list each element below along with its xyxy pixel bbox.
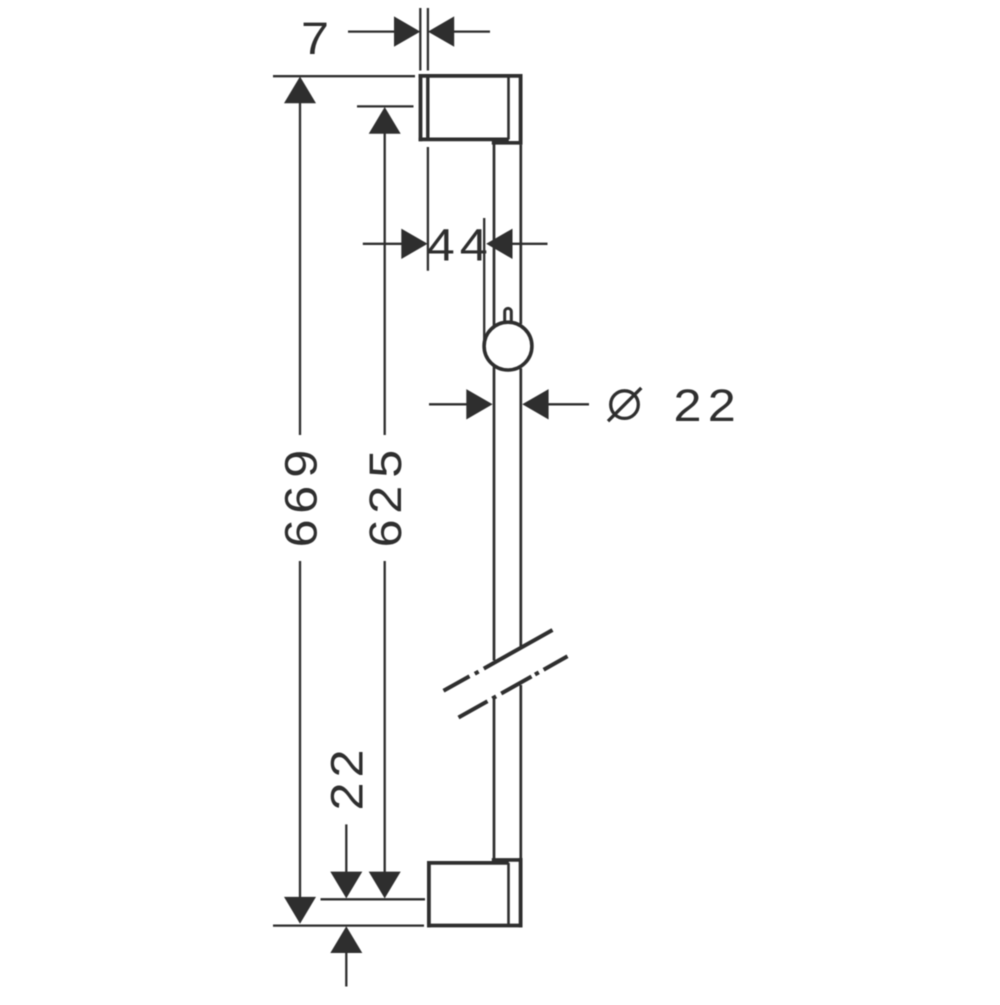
bottom bracket bottom edge bbox=[427, 924, 523, 928]
top bracket collar line bbox=[492, 141, 523, 145]
dim 44 extension line left bbox=[427, 147, 429, 271]
break line upper: dash segments bbox=[444, 630, 553, 691]
rail left edge upper segment bbox=[493, 139, 496, 326]
bottom bracket top edge bbox=[427, 861, 509, 865]
dim 669 line upper part bbox=[299, 101, 301, 435]
svg-text:2: 2 bbox=[673, 381, 701, 431]
label 669 bbox=[277, 450, 327, 548]
svg-text:5: 5 bbox=[362, 450, 412, 478]
dim 22 line above arrow bbox=[345, 824, 347, 873]
svg-text:9: 9 bbox=[277, 450, 327, 478]
extension line bar end bottom bbox=[321, 898, 426, 900]
arrow 7 left (points right) bbox=[394, 16, 420, 46]
svg-text:7: 7 bbox=[301, 14, 329, 64]
arrow 625 bottom (points down) bbox=[369, 872, 401, 899]
dim diameter 22 line left segment bbox=[429, 403, 467, 405]
top bracket left edge bbox=[419, 74, 423, 141]
bottom bracket collar line bbox=[492, 858, 523, 862]
arrow 44 left (points right) bbox=[401, 229, 427, 259]
svg-text:6: 6 bbox=[277, 486, 327, 514]
rail left edge lower segment bbox=[493, 699, 496, 860]
dim 7 line right segment bbox=[454, 30, 491, 32]
svg-text:2: 2 bbox=[708, 381, 736, 431]
arrow 44 right (points left) bbox=[486, 229, 512, 259]
arrow diameter22 right (points left) bbox=[522, 389, 548, 419]
arrow 22 bottom (points up) bbox=[330, 926, 362, 953]
rail right edge lower segment bbox=[519, 685, 522, 858]
label 22 bbox=[323, 749, 373, 810]
top bracket top edge bbox=[419, 74, 523, 78]
bottom bracket left edge bbox=[427, 861, 431, 927]
dim 625 line lower part bbox=[384, 561, 386, 874]
label 625 bbox=[362, 450, 412, 548]
arrow diameter22 left (points right) bbox=[466, 389, 492, 419]
bottom bracket inner right line bbox=[507, 863, 510, 926]
dim 669 extension line top bbox=[273, 75, 415, 77]
dim 22 lower tail line bbox=[345, 952, 347, 987]
svg-text:6: 6 bbox=[277, 519, 327, 547]
arrow 669 bottom (points down) bbox=[284, 897, 316, 924]
slider knob bbox=[505, 308, 512, 323]
arrow 625 top (points up) bbox=[369, 107, 401, 134]
arrow 22 top (points down) bbox=[330, 872, 362, 899]
dim 669 line lower part bbox=[299, 561, 301, 899]
arrow 669 top (points up) bbox=[284, 77, 316, 104]
top bracket inner left line bbox=[426, 76, 429, 139]
rail right edge upper segment bbox=[519, 145, 522, 324]
dim 44 line left segment bbox=[363, 243, 402, 245]
svg-text:2: 2 bbox=[323, 749, 373, 777]
break line lower: dash segments bbox=[459, 656, 568, 717]
dim diameter 22 line right segment bbox=[548, 403, 589, 405]
svg-text:6: 6 bbox=[362, 519, 412, 547]
dim 625 line upper part bbox=[384, 132, 386, 435]
dim 44 extension line right bbox=[483, 218, 485, 352]
dim 7 line left segment bbox=[348, 30, 395, 32]
top bracket bottom edge bbox=[419, 137, 509, 141]
dim 625 extension line top bbox=[357, 105, 414, 107]
svg-text:2: 2 bbox=[362, 486, 412, 514]
svg-text:4: 4 bbox=[427, 221, 455, 271]
label diameter symbol bbox=[608, 388, 641, 421]
arrow 7 right (points left) bbox=[428, 16, 454, 46]
svg-text:2: 2 bbox=[323, 782, 373, 810]
extension line bracket bottom bbox=[273, 924, 424, 926]
svg-text:4: 4 bbox=[460, 221, 488, 271]
slider circle bbox=[484, 322, 532, 370]
top bracket right edge bbox=[519, 74, 523, 145]
dim 7 extension line left bbox=[419, 8, 421, 71]
rail left edge mid segment bbox=[493, 366, 496, 661]
top bracket inner right line bbox=[507, 76, 510, 139]
bottom bracket right edge bbox=[519, 858, 523, 927]
dim 44 line right segment bbox=[511, 243, 548, 245]
dim 7 extension line right bbox=[427, 8, 429, 71]
rail right edge mid segment bbox=[519, 368, 522, 647]
